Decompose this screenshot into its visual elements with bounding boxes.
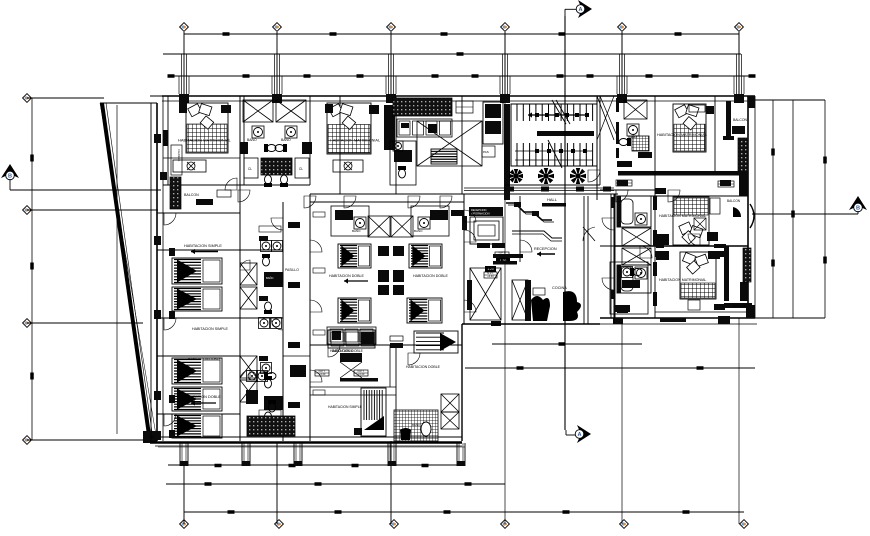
svg-text:BALCON: BALCON [184,193,199,197]
svg-text:RECEPCION: RECEPCION [534,247,557,251]
svg-text:HABITACION SIMPLE: HABITACION SIMPLE [184,244,222,248]
svg-text:HABITACION MATRIMONIAL: HABITACION MATRIMONIAL [330,139,380,143]
svg-text:HABITACION MATRIMONIAL: HABITACION MATRIMONIAL [659,278,706,282]
svg-text:A: A [578,7,582,13]
svg-text:A: A [577,432,581,438]
svg-text:HABITACION SIMPLE: HABITACION SIMPLE [192,327,228,331]
svg-text:HALL: HALL [547,197,558,202]
svg-text:BAÑO: BAÑO [412,422,421,427]
svg-text:COCINA: COCINA [552,286,567,290]
svg-text:BAÑO TURCO: BAÑO TURCO [332,348,354,353]
svg-text:HABITACION SIMPLE: HABITACION SIMPLE [328,405,363,409]
svg-text:PASILLO: PASILLO [285,268,299,272]
svg-text:PAS: PAS [483,150,489,154]
svg-text:HABITACION MATRIMONIAL: HABITACION MATRIMONIAL [178,138,232,143]
svg-text:BALCON: BALCON [733,118,747,122]
svg-text:HABITACION DOBLE: HABITACION DOBLE [188,357,222,361]
svg-text:HABITACION MATRIMONIAL: HABITACION MATRIMONIAL [657,133,707,137]
svg-text:HABITACION DOBLE: HABITACION DOBLE [406,365,441,369]
svg-text:HABITACION DOBLE: HABITACION DOBLE [184,395,221,399]
svg-text:HABITACION DOBLE: HABITACION DOBLE [413,274,448,278]
svg-text:BALCON: BALCON [727,199,741,203]
svg-text:RECEPCION: RECEPCION [471,208,487,212]
svg-text:B: B [856,206,860,212]
svg-text:BAÑO: BAÑO [352,228,361,233]
svg-text:+3.40: +3.40 [358,372,365,376]
svg-text:BAÑO: BAÑO [247,137,257,142]
svg-text:HABITACION DOBLE: HABITACION DOBLE [329,274,364,278]
svg-text:BAÑO: BAÑO [281,137,291,142]
svg-text:BAÑO: BAÑO [414,228,423,233]
svg-text:B: B [8,174,12,180]
svg-text:BALCON: BALCON [733,304,747,308]
svg-text:HABITACION MATRIMONIAL: HABITACION MATRIMONIAL [659,214,706,218]
svg-text:CL: CL [248,167,252,171]
svg-text:+3.40: +3.40 [487,274,494,278]
svg-text:CL: CL [299,167,303,171]
